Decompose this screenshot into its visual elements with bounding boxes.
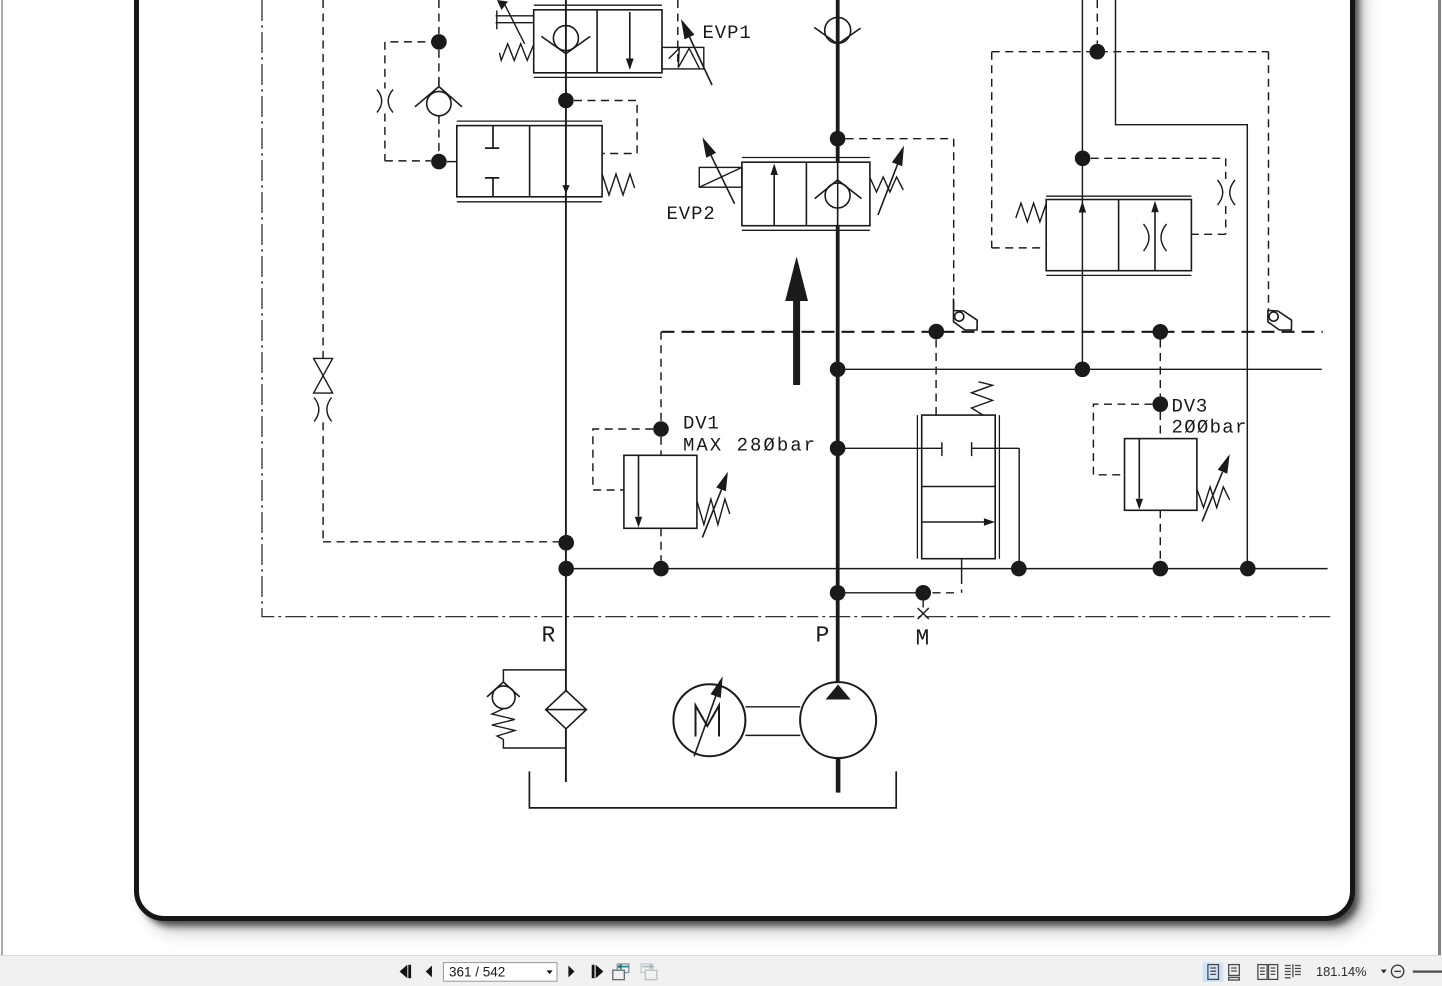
electric motor circle: [673, 684, 745, 756]
check valve D on P-line top: [814, 17, 860, 44]
valve EVP2 body: [742, 158, 870, 231]
spring V2 right: [602, 174, 635, 195]
wire dashed compensator drain to M node: [931, 576, 962, 593]
wire dashed top at x1097: [1096, 0, 1098, 44]
check valve A above V2: [415, 79, 462, 116]
pennant symbol left: [954, 299, 978, 331]
wire dashed bus y332: [662, 331, 1323, 333]
svg-text:2ØØbar: 2ØØbar: [1172, 417, 1248, 439]
adjustment arrow DV3: [1202, 454, 1230, 521]
wire compensator left pilot: [838, 442, 942, 456]
wire dashed DV3 pilot loop: [1093, 404, 1152, 475]
node junction: [1240, 561, 1256, 577]
svg-text:DV1: DV1: [683, 413, 720, 435]
wire dashed through check valve A: [438, 50, 440, 153]
node junction: [558, 93, 574, 109]
node junction: [558, 535, 574, 551]
wire pump suction line: [836, 758, 841, 793]
node junction: [929, 324, 945, 340]
spring EVP1 left: [500, 44, 534, 61]
solenoid EVP1 right: [662, 47, 704, 69]
orifice on V4 right pilot: [1218, 180, 1236, 205]
adjustment arrow DV1: [702, 472, 728, 538]
node junction: [653, 421, 669, 437]
spring DV1 right: [697, 499, 730, 524]
valve V2 body (pilot-operated 2-way): [457, 121, 602, 202]
wire P to M gauge line: [838, 592, 924, 594]
wire horizontal line y369: [838, 368, 1322, 370]
wire filter bypass loop: [503, 670, 566, 748]
spring V4 left: [1016, 203, 1046, 222]
node junction: [431, 154, 447, 170]
variable arrow over motor: [694, 676, 723, 756]
wire motor-pump coupling: [745, 707, 800, 736]
relief valve DV1 body: [624, 455, 697, 528]
wire dashed check-loop at left of EVP1: [385, 0, 439, 161]
wire valve2 left stub: [447, 161, 457, 163]
svg-text:DV3: DV3: [1172, 396, 1209, 418]
node junction: [1011, 561, 1027, 577]
spring DV3 right: [1197, 487, 1230, 508]
compensator internal flow arrow: [922, 518, 995, 526]
check valve inside EVP2: [815, 162, 862, 226]
svg-text:MAX 28Øbar: MAX 28Øbar: [683, 435, 817, 457]
flow arrow down in EVP1 right cell: [626, 12, 634, 70]
pennant symbol right: [1268, 311, 1292, 331]
wire compensator drain stub: [961, 559, 963, 576]
wire compensator right link to bus: [972, 442, 1020, 568]
adjustment arrow EVP1: [681, 19, 712, 85]
node junction: [431, 34, 447, 50]
wire dashed EVP1 pilot to valve2: [574, 101, 637, 154]
wire dashed box top-right: [992, 52, 1269, 310]
orifice on dashed check-loop: [377, 90, 393, 113]
wire bottom bus line: [566, 568, 1327, 570]
tank reservoir: [529, 771, 896, 808]
node junction: [1075, 362, 1091, 378]
wire dashed top-right valve right pilot: [1091, 158, 1226, 234]
valve EVP1 body: [534, 5, 662, 77]
shut-off valve (bowtie) on left branch: [314, 358, 333, 393]
spring EVP2 right: [870, 177, 903, 192]
valve V4 top-right flow regulator body: [1046, 196, 1191, 275]
node junction: [653, 561, 669, 577]
big flow direction arrow: [785, 257, 808, 386]
flow arrow with orifice in V4 right cell: [1144, 201, 1167, 271]
orifice below shut-off valve: [314, 398, 332, 422]
wire dashed EVP2 node to pennant: [846, 139, 954, 310]
wire R-line vertical: [565, 0, 567, 782]
node junction: [915, 585, 931, 601]
wire dashed compensator top pilot: [935, 340, 937, 416]
node junction: [830, 441, 846, 457]
check valve E filter bypass: [487, 682, 520, 709]
node junction: [830, 131, 846, 147]
blocked port symbols in V2 left cell: [485, 126, 499, 197]
wire dashed left shut-off branch: [323, 0, 558, 542]
svg-text:M: M: [916, 626, 930, 652]
wire dashed above EVP1 solenoid: [677, 0, 679, 67]
solenoid EVP2 left: [699, 167, 742, 187]
flow arrow up in V4 left cell: [1079, 201, 1086, 213]
node junction: [1153, 396, 1169, 412]
adjustment arrow EVP2 right: [878, 146, 904, 215]
dash-dot enclosure boundary: [262, 0, 1332, 617]
plugged gauge port M: [918, 601, 929, 619]
check valve inside EVP1: [541, 26, 590, 54]
node junction: [1075, 151, 1091, 167]
solenoid EVP1 left: [496, 0, 534, 44]
wire dashed DV1 riser: [660, 332, 662, 561]
wire dashed DV3 riser: [1159, 340, 1161, 561]
svg-text:EVP1: EVP1: [703, 22, 752, 44]
svg-text:P: P: [816, 623, 830, 649]
svg-text:R: R: [542, 623, 556, 649]
wire P-line heavy vertical: [836, 0, 840, 683]
spring filter bypass: [492, 709, 515, 740]
wire top-right L-shaped line: [1116, 0, 1248, 569]
svg-text:361 / 542: 361 / 542: [449, 964, 505, 979]
relief valve DV3 body: [1125, 439, 1197, 511]
filter diamond: [546, 691, 587, 729]
flow arrow up in EVP2 left cell: [771, 164, 778, 226]
node junction: [1090, 44, 1106, 60]
node junction: [1153, 324, 1169, 340]
node junction: [830, 585, 846, 601]
hydraulic pump circle: [800, 682, 876, 758]
svg-text:EVP2: EVP2: [667, 203, 716, 225]
spring compensator top: [972, 382, 993, 415]
wire dashed DV1 pilot loop: [593, 429, 653, 490]
pressure compensator valve body: [917, 415, 999, 559]
node junction: [558, 561, 574, 577]
svg-text:181.14%: 181.14%: [1316, 964, 1367, 979]
wire vertical line through top-right valve: [1081, 0, 1083, 369]
adjustment arrow EVP2 left: [702, 137, 734, 204]
node junction: [830, 362, 846, 378]
flow arrow down in V2 right cell: [562, 185, 569, 194]
node junction: [1153, 561, 1169, 577]
